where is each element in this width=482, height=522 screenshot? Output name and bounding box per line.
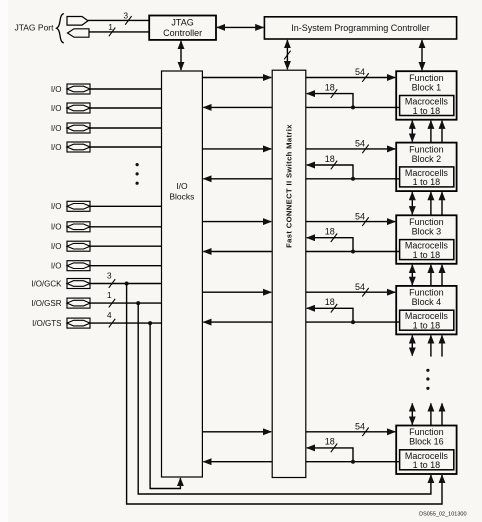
svg-text:18: 18: [325, 227, 335, 237]
bus slash 3: [125, 16, 131, 25]
svg-text:Controller: Controller: [163, 28, 202, 38]
bus slash 1: [109, 28, 115, 37]
wire pad I/O #5 to I/O Blocks: [90, 205, 162, 207]
junction dot on GCK wire: [125, 282, 129, 286]
wire matrix to Macrocells (FB4): [306, 321, 400, 323]
wire matrix to Function Block 4 (bus of 54): [306, 291, 395, 293]
junction dot feedback (FB3): [351, 250, 355, 254]
wire global net column B (FB2-FB3): [441, 192, 443, 215]
svg-text:18: 18: [325, 437, 335, 447]
block In-System Programming Controller: [264, 17, 456, 39]
bus slash 54 (FB16): [362, 428, 368, 437]
wire matrix to Function Block 16 (bus of 54): [306, 431, 395, 433]
block Fast CONNECT II Switch Matrix: [272, 70, 306, 477]
wire JTAG Controller to I/O Blocks (bidirectional): [180, 41, 182, 70]
wire matrix to Macrocells (FB16): [306, 461, 400, 463]
wire global net column A (above FB16): [430, 403, 432, 425]
pad TDO (output pentagon): [68, 29, 90, 37]
wire pad I/O #4 to I/O Blocks: [90, 146, 162, 148]
pad I/O #8: [51, 261, 90, 271]
svg-text:Block 16: Block 16: [409, 437, 444, 447]
wire I/O Blocks to matrix (FB16 row): [202, 431, 271, 433]
svg-text:3: 3: [107, 271, 112, 281]
bus slash 54 (FB3): [362, 217, 368, 226]
pad I/O #4: [51, 142, 90, 152]
svg-text:4: 4: [107, 310, 112, 320]
svg-text:1 to 18: 1 to 18: [413, 177, 441, 187]
svg-text:Function: Function: [409, 288, 444, 298]
svg-text:54: 54: [355, 139, 365, 149]
wire pad I/O/GTS to I/O Blocks: [90, 322, 162, 324]
wire pad I/O #2 to I/O Blocks: [90, 107, 162, 109]
junction dot on GSR wire: [136, 301, 140, 305]
svg-text:18: 18: [325, 154, 335, 164]
bus slash 18 (FB16): [331, 444, 337, 453]
block Macrocells 1 to 18 (FB16): [400, 450, 454, 470]
wire GTS global tristate rail: [150, 323, 180, 488]
pad I/O/GCK: [31, 279, 90, 289]
wire global net column A (FB1-FB2): [430, 121, 432, 143]
svg-text:Block 3: Block 3: [412, 227, 442, 237]
wire GCK global clock rail: [127, 284, 442, 505]
bus slash 54 (FB1): [362, 73, 368, 82]
junction dot feedback (FB2): [351, 177, 355, 181]
wire matrix to Function Block 1 (bus of 54): [306, 77, 395, 79]
bus slash 18 (FB2): [331, 161, 337, 170]
wire matrix to I/O Blocks (FB1 macrocell outputs): [203, 106, 272, 108]
svg-text:1 to 18: 1 to 18: [413, 106, 441, 116]
junction dot on GTS wire: [148, 321, 152, 325]
wire inter-FB bidirectional (FB2-FB3): [411, 192, 413, 214]
pad TDI/TMS/TCK (input pentagon): [67, 17, 88, 26]
wire pad I/O #7 to I/O Blocks: [90, 245, 162, 247]
wire matrix to Macrocells (FB1): [306, 106, 400, 108]
wire pad I/O/GCK to I/O Blocks: [90, 283, 162, 285]
wire macrocell feedback to matrix (bus of 18, FB16): [307, 448, 353, 462]
svg-text:Block 4: Block 4: [412, 297, 442, 307]
wire matrix to Macrocells (FB3): [306, 251, 400, 253]
svg-text:JTAG Port: JTAG Port: [14, 23, 54, 33]
svg-text:Block 1: Block 1: [412, 82, 442, 92]
wire macrocell feedback to matrix (bus of 18, FB4): [307, 308, 353, 322]
block I/O Blocks: [162, 71, 203, 477]
wire inter-FB bidirectional (above FB16): [411, 403, 413, 424]
svg-text:1 to 18: 1 to 18: [413, 321, 441, 331]
wire global net column A (below FB4): [430, 335, 432, 356]
svg-text:I/O: I/O: [51, 223, 62, 232]
svg-text:Blocks: Blocks: [169, 192, 194, 202]
block Function Block 16: [396, 426, 456, 475]
wire I/O Blocks to matrix (FB3 row): [202, 221, 271, 223]
wire matrix to I/O Blocks (FB4 macrocell outputs): [203, 321, 272, 323]
svg-text:Function: Function: [409, 144, 444, 154]
brace for JTAG port: [57, 14, 64, 43]
bus slash 18 (FB3): [331, 233, 337, 242]
wire inter-FB bidirectional (FB3-FB4): [411, 265, 413, 285]
ellipsis dots between I/O pads: [136, 163, 139, 185]
wire global net column B (below FB4): [441, 335, 443, 356]
block Function Block 3: [396, 215, 456, 263]
wire macrocell feedback to matrix (bus of 18, FB1): [307, 94, 353, 108]
wire I/O Blocks to matrix (FB1 row): [202, 77, 271, 79]
svg-text:I/O: I/O: [51, 124, 62, 133]
bus slash 3 on GCK wire: [109, 279, 115, 288]
svg-text:I/O: I/O: [51, 143, 62, 152]
wire pad I/O #6 to I/O Blocks: [90, 226, 162, 228]
svg-text:I/O/GCK: I/O/GCK: [31, 279, 62, 288]
wire matrix to Function Block 3 (bus of 54): [306, 221, 395, 223]
wire GSR global set/reset rail: [138, 303, 431, 494]
bus slash 4 on GTS wire: [109, 319, 115, 328]
wire macrocell feedback to matrix (bus of 18, FB2): [307, 165, 353, 179]
pad I/O #6: [51, 222, 90, 232]
block Macrocells 1 to 18 (FB4): [400, 310, 454, 330]
pad I/O #7: [51, 241, 90, 251]
svg-text:54: 54: [355, 422, 365, 432]
block JTAG Controller: [149, 16, 216, 40]
wire matrix to Macrocells (FB2): [306, 178, 400, 180]
wire matrix to I/O Blocks (FB3 macrocell outputs): [203, 251, 272, 253]
svg-text:Block 2: Block 2: [412, 154, 442, 164]
svg-text:3: 3: [123, 10, 128, 20]
ellipsis dots between Function Block 4 and 16: [426, 369, 429, 390]
wire pad I/O #3 to I/O Blocks: [90, 127, 162, 129]
pad I/O #2: [51, 103, 90, 113]
svg-text:I/O: I/O: [51, 104, 62, 113]
svg-text:I/O/GSR: I/O/GSR: [31, 299, 61, 308]
svg-text:1: 1: [107, 290, 112, 300]
svg-text:I/O: I/O: [51, 262, 62, 271]
svg-text:Function: Function: [409, 217, 444, 227]
pad I/O #5: [51, 201, 90, 211]
bus slash 54 (FB2): [362, 145, 368, 154]
wire inter-FB bidirectional (FB1-FB2): [411, 121, 413, 142]
wire global net column B (FB1-FB2): [441, 121, 443, 143]
bus slash on ISP-matrix wire: [284, 51, 290, 60]
wire I/O Blocks to matrix (FB2 row): [202, 148, 271, 150]
block Macrocells 1 to 18 (FB3): [400, 240, 454, 260]
svg-text:I/O: I/O: [51, 242, 62, 251]
junction dot feedback (FB1): [351, 105, 355, 109]
wire global net column B (FB3-FB4): [441, 265, 443, 286]
block Macrocells 1 to 18 (FB2): [400, 167, 454, 187]
pad I/O/GSR: [31, 298, 90, 308]
wire ISP Controller to Function Block 1 (bidirectional): [421, 40, 423, 70]
block Macrocells 1 to 18 (FB1): [400, 96, 454, 116]
block Function Block 4: [396, 286, 456, 335]
bus slash 18 (FB1): [331, 89, 337, 98]
svg-text:1 to 18: 1 to 18: [413, 250, 441, 260]
wire global net column A (FB3-FB4): [430, 265, 432, 286]
wire pad I/O/GSR to I/O Blocks: [90, 302, 162, 304]
bus slash 1 on GSR wire: [109, 299, 115, 308]
svg-text:18: 18: [325, 82, 335, 92]
block Function Block 1: [396, 71, 456, 120]
pad I/O #3: [51, 123, 90, 133]
wire macrocell feedback to matrix (bus of 18, FB3): [307, 238, 353, 252]
wire matrix to I/O Blocks (FB2 macrocell outputs): [203, 178, 272, 180]
svg-text:Function: Function: [409, 73, 444, 83]
svg-text:In-System Programming Controll: In-System Programming Controller: [291, 23, 430, 33]
svg-text:18: 18: [325, 297, 335, 307]
svg-text:I/O: I/O: [176, 181, 188, 191]
junction dot feedback (FB4): [351, 320, 355, 324]
bus slash 54 (FB4): [362, 288, 368, 297]
svg-text:54: 54: [355, 211, 365, 221]
svg-text:I/O: I/O: [51, 202, 62, 211]
wire matrix to I/O Blocks (FB16 macrocell outputs): [203, 461, 272, 463]
svg-text:54: 54: [355, 282, 365, 292]
svg-text:DS055_02_101300: DS055_02_101300: [419, 512, 466, 518]
wire JTAG Controller to ISP Controller (bidirectional): [217, 26, 263, 28]
svg-text:Function: Function: [409, 427, 444, 437]
svg-text:1 to 18: 1 to 18: [413, 460, 441, 470]
wire pad I/O #1 to I/O Blocks: [90, 88, 162, 90]
svg-text:I/O/GTS: I/O/GTS: [32, 319, 61, 328]
wire global net column B (above FB16): [441, 403, 443, 425]
svg-text:Fast CONNECT II Switch Matrix: Fast CONNECT II Switch Matrix: [285, 124, 294, 248]
wire ISP Controller to FastCONNECT matrix (bidirectional bus): [286, 40, 288, 69]
svg-text:JTAG: JTAG: [171, 18, 193, 28]
wire matrix to Function Block 2 (bus of 54): [306, 148, 395, 150]
pad I/O/GTS: [32, 318, 90, 328]
wire JTAG inputs to JTAG Controller (bus of 3): [88, 19, 149, 21]
svg-text:54: 54: [355, 67, 365, 77]
pad I/O #1: [51, 84, 90, 94]
block Function Block 2: [396, 143, 456, 192]
bus slash 18 (FB4): [331, 304, 337, 313]
wire global net column A (FB2-FB3): [430, 192, 432, 215]
wire I/O Blocks to matrix (FB4 row): [202, 291, 271, 293]
wire pad I/O #8 to I/O Blocks: [90, 265, 162, 267]
wire JTAG Controller to TDO (bus of 1): [89, 31, 149, 33]
junction dot feedback (FB16): [351, 460, 355, 464]
wire inter-FB bidirectional (below FB4): [411, 335, 413, 355]
svg-text:1: 1: [108, 22, 113, 32]
svg-text:I/O: I/O: [51, 85, 62, 94]
